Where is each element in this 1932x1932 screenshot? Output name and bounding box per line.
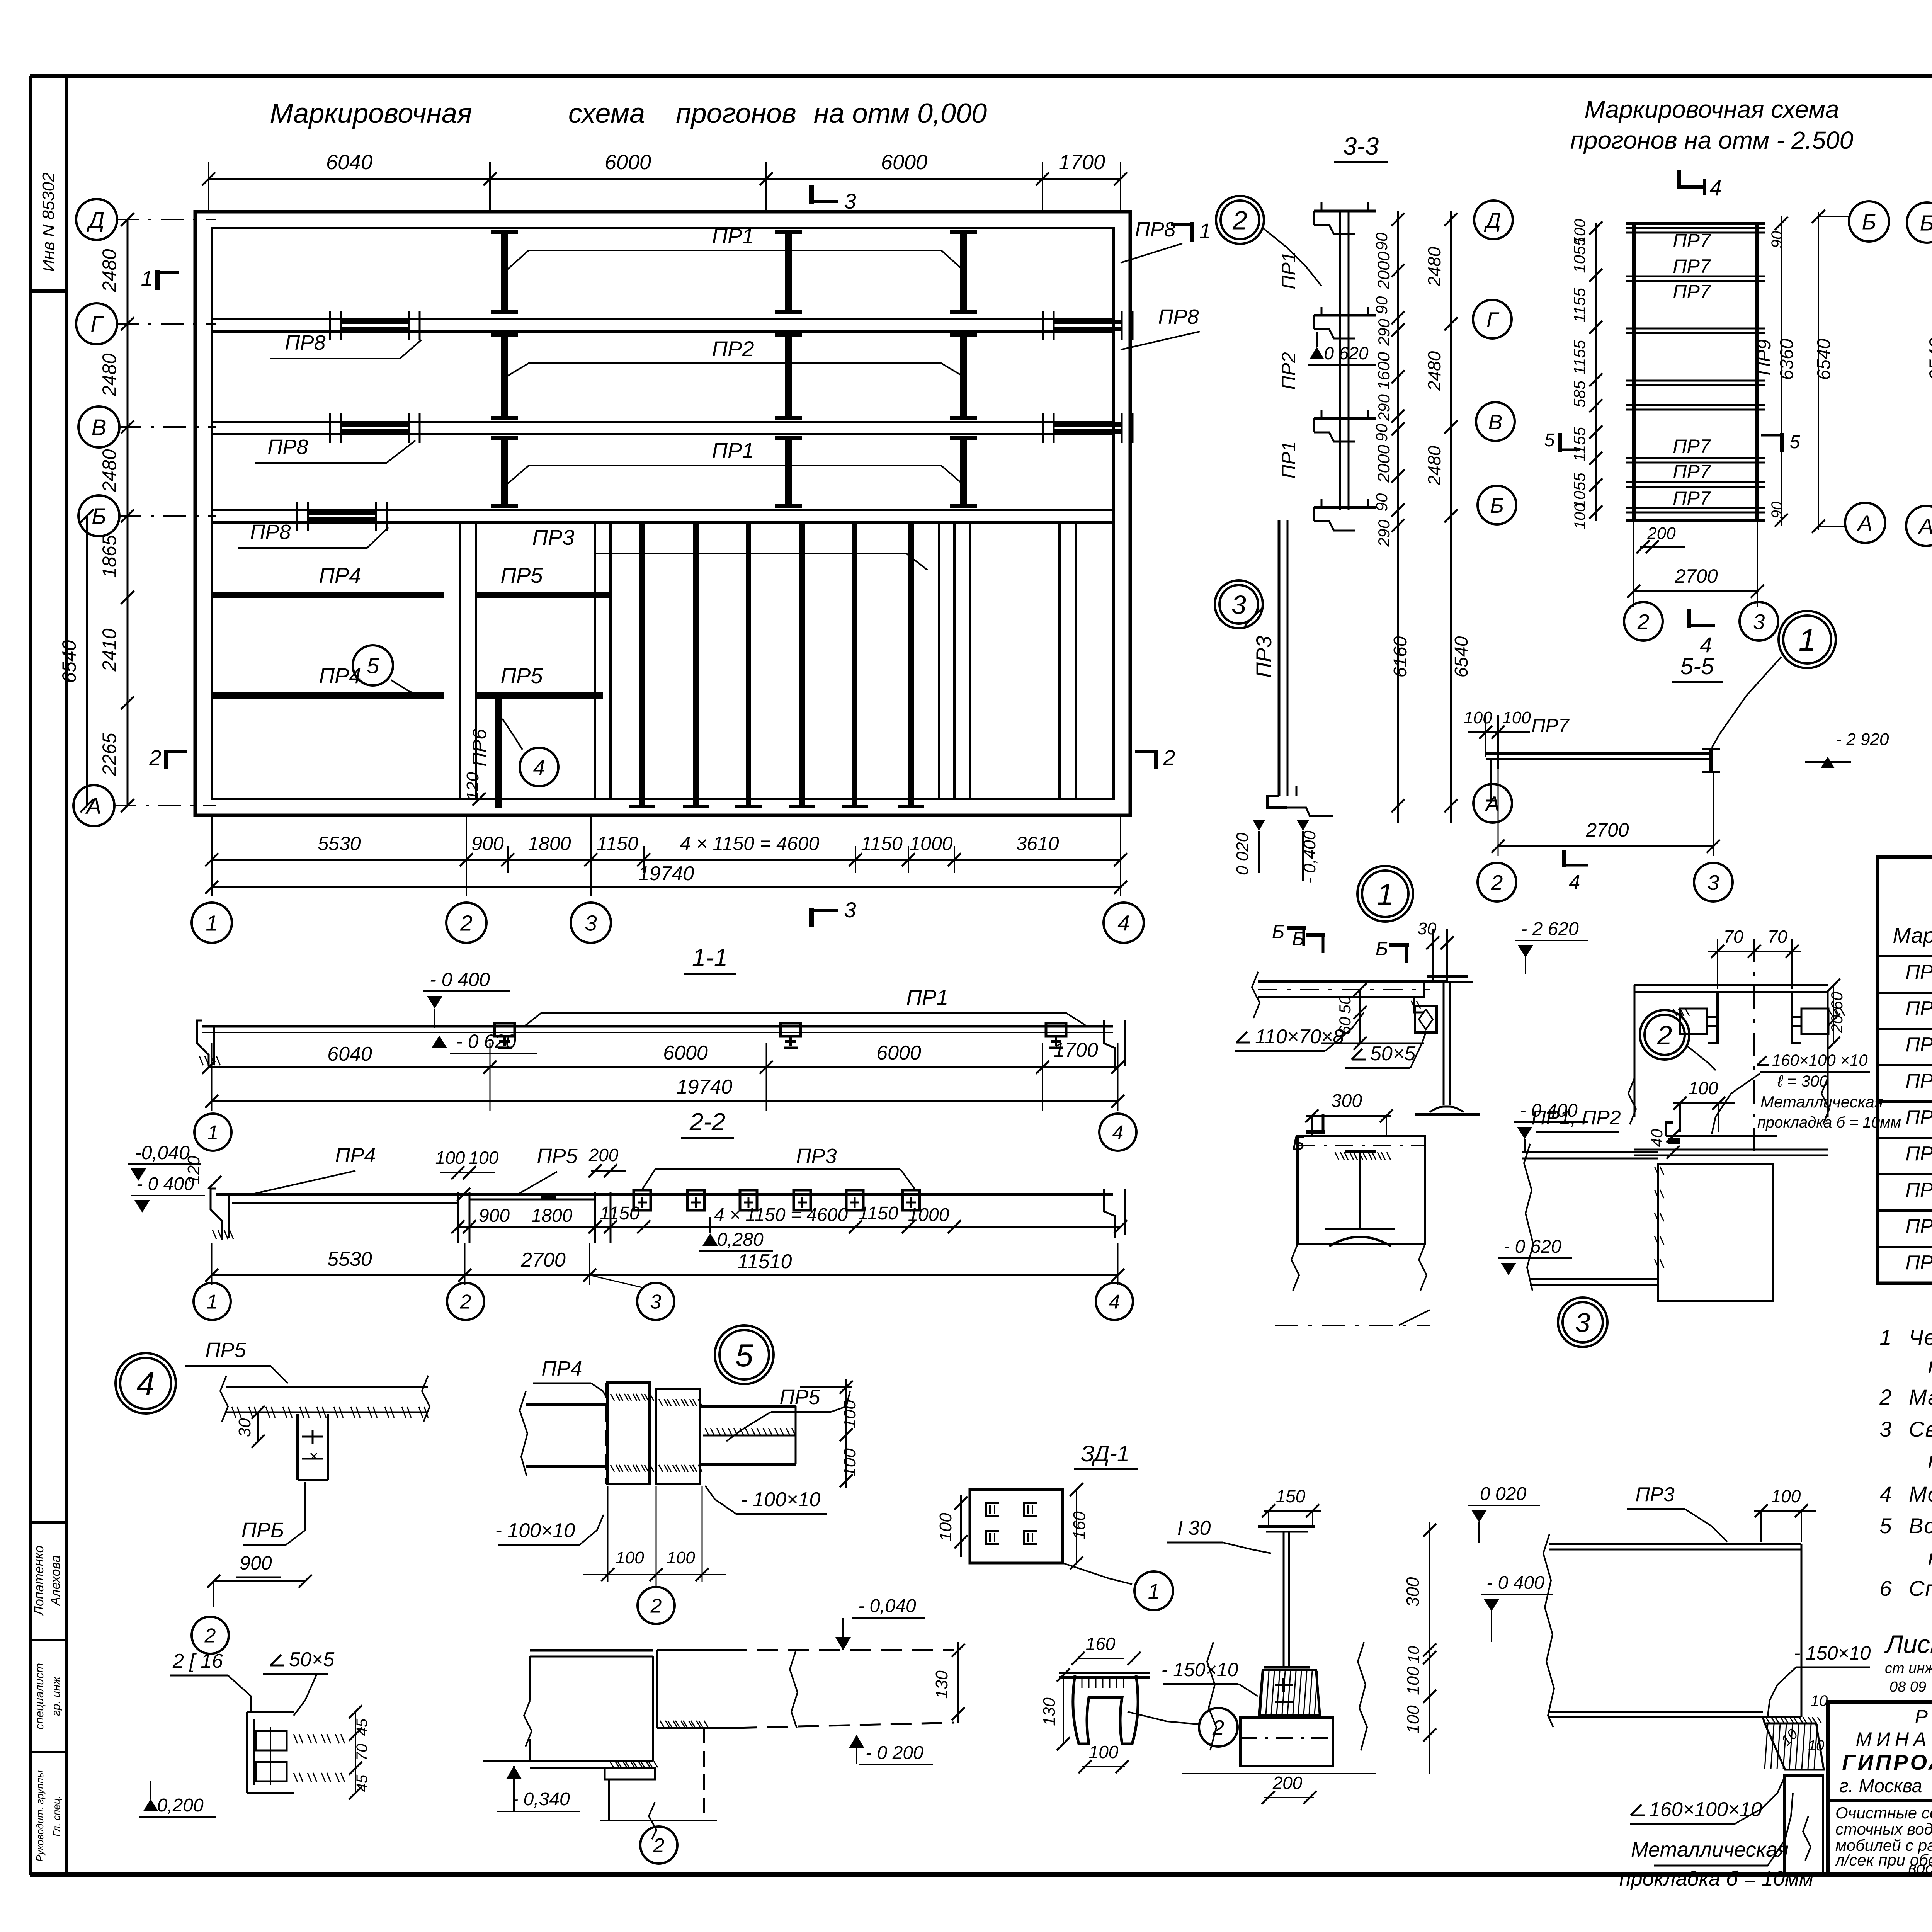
- svg-text:несговоренных швов пр: несговоренных швов принять 6 мм.: [1928, 1448, 1932, 1472]
- svg-text:120: 120: [463, 772, 482, 801]
- plan25 cut 5 marks: [1558, 433, 1562, 452]
- svg-text:ПР7: ПР7: [1531, 715, 1570, 736]
- svg-text:200: 200: [1272, 1773, 1303, 1793]
- svg-text:90: 90: [1769, 502, 1786, 519]
- svg-text:ПР1: ПР1: [712, 438, 754, 463]
- detail ZD-1 plate: [970, 1490, 1063, 1563]
- axis circle D: [76, 199, 117, 240]
- axis circle G: [76, 303, 117, 344]
- svg-text:ПР4: ПР4: [541, 1357, 582, 1380]
- svg-text:2: 2: [1657, 1020, 1672, 1050]
- svg-text:- 0,040: - 0,040: [858, 1596, 916, 1616]
- svg-text:Лист АС-6и выпущен взамен: Лист АС-6и выпущен взамен листа АС-6,: [1884, 1630, 1932, 1658]
- svg-text:900: 900: [240, 1552, 272, 1574]
- node2 I beam below: [1345, 1150, 1376, 1153]
- node1 label angle50: [1352, 1059, 1366, 1061]
- svg-text:6540: 6540: [1925, 338, 1932, 381]
- section 2-2 grid3 wall: [594, 1192, 596, 1243]
- section 5-5 beam: [1486, 752, 1713, 755]
- svg-text:160: 160: [1070, 1511, 1089, 1540]
- svg-text:Б: Б: [1292, 928, 1305, 949]
- section 5-5 cut mark 4: [1562, 850, 1566, 867]
- svg-text:ПР1: ПР1: [1905, 961, 1932, 983]
- svg-text:на отм 0,000: на отм 0,000: [814, 98, 987, 129]
- svg-text:Очистные сооружения для: Очистные сооружения для: [1835, 1804, 1932, 1822]
- svg-text:0 020: 0 020: [1233, 832, 1252, 875]
- node1 cut B top 2: [1389, 943, 1409, 947]
- sectionBB side verticals: [1634, 985, 1636, 1117]
- svg-text:2480: 2480: [99, 353, 120, 396]
- svg-text:2 [ 16: 2 [ 16: [172, 1650, 223, 1672]
- svg-text:90: 90: [1372, 423, 1391, 442]
- svg-text:1: 1: [1148, 1579, 1160, 1603]
- section 4-4 axis circle A: [1906, 506, 1932, 546]
- section cut T1 right: [1190, 222, 1194, 241]
- svg-text:×: ×: [309, 1448, 318, 1465]
- svg-text:100: 100: [1089, 1742, 1119, 1762]
- section 2-2 circle 4: [1096, 1283, 1133, 1320]
- svg-text:585: 585: [1570, 380, 1588, 408]
- svg-text:ПР7: ПР7: [1673, 461, 1711, 483]
- node2 circle 3: [1558, 1298, 1607, 1347]
- svg-text:ПР8: ПР8: [1905, 1215, 1932, 1238]
- section 2-2 dim row 2: [212, 1274, 1118, 1276]
- section 3-3 bottom support: [1267, 796, 1287, 808]
- splice PR8 axis V left: [341, 422, 409, 427]
- beam PR6 vertical: [495, 696, 502, 808]
- svg-text:70: 70: [1767, 927, 1787, 947]
- node1 beam: [1258, 980, 1447, 983]
- svg-text:ПР8: ПР8: [1158, 305, 1199, 328]
- svg-text:45: 45: [354, 1718, 371, 1736]
- svg-text:- 0 200: - 0 200: [866, 1743, 923, 1763]
- svg-text:11510: 11510: [738, 1250, 792, 1273]
- svg-text:ПР5: ПР5: [205, 1338, 246, 1362]
- svg-text:коррозийным составом: коррозийным составом: [1928, 1545, 1932, 1570]
- svg-text:ПР3: ПР3: [796, 1145, 837, 1168]
- svg-text:08 09 77: 08 09 77: [1889, 1679, 1932, 1695]
- svg-text:ПР7: ПР7: [1673, 435, 1711, 457]
- detail angle 50x5 label: [270, 1665, 284, 1667]
- svg-text:ПР5: ПР5: [500, 663, 543, 688]
- plan25 circle 2: [1624, 602, 1663, 641]
- svg-text:- 100×10: - 100×10: [741, 1488, 821, 1511]
- svg-text:Гл. спец.: Гл. спец.: [51, 1796, 62, 1837]
- section cut 2T left: [164, 750, 168, 769]
- section 1-1 circle 1: [194, 1114, 231, 1151]
- vignette F circle 2: [640, 1827, 677, 1864]
- node3 label angle160: [1631, 1815, 1645, 1816]
- svg-text:3-3: 3-3: [1343, 132, 1379, 160]
- elements table grid: [1878, 857, 1932, 1283]
- svg-text:Б: Б: [1490, 493, 1504, 517]
- svg-text:5530: 5530: [327, 1248, 372, 1270]
- node3 pedestal I beam: [1258, 1525, 1315, 1528]
- detail 5 right dim 100 100: [845, 1379, 847, 1488]
- svg-text:Б: Б: [1376, 938, 1388, 959]
- svg-text:3: 3: [1575, 1308, 1590, 1338]
- node2 angle: [1666, 1135, 1777, 1137]
- vignette F right beam: [657, 1649, 726, 1651]
- axis circle A: [73, 785, 114, 826]
- svg-text:3: 3: [1753, 610, 1765, 634]
- svg-text:Монтаж производить на черн: Монтаж производить на черных болтах М12.: [1909, 1482, 1932, 1506]
- svg-text:схема: схема: [568, 98, 645, 129]
- svg-text:ПР9: ПР9: [1754, 339, 1775, 376]
- stamp divider: [30, 289, 66, 293]
- section 2-2 right support: [1104, 1189, 1115, 1238]
- section 2-2 circle 2: [447, 1283, 484, 1320]
- svg-text:6540: 6540: [58, 640, 80, 683]
- axis line B: [118, 515, 216, 517]
- svg-text:ПР1: ПР1: [1278, 441, 1299, 478]
- svg-text:ПР4: ПР4: [335, 1144, 376, 1167]
- svg-text:Чертежи металлических кон: Чертежи металлических конструкций разраб…: [1909, 1325, 1932, 1349]
- svg-text:- 150×10: - 150×10: [1794, 1642, 1871, 1664]
- node2 circle: [1640, 1010, 1689, 1060]
- svg-text:2: 2: [650, 1595, 662, 1617]
- svg-text:сточных вод от мойки авто-: сточных вод от мойки авто-: [1835, 1820, 1932, 1838]
- svg-text:50: 50: [1336, 995, 1354, 1014]
- svg-text:ПР5: ПР5: [1905, 1106, 1932, 1129]
- svg-text:10: 10: [1405, 1646, 1422, 1663]
- svg-text:150: 150: [1276, 1486, 1306, 1506]
- detail 5 circle 2: [638, 1587, 675, 1624]
- svg-text:ПР1: ПР1: [906, 985, 948, 1009]
- plan25 dim chain right 6540: [1818, 212, 1819, 530]
- vignette F pier: [608, 1779, 610, 1820]
- svg-text:30: 30: [235, 1418, 254, 1437]
- svg-text:1600: 1600: [1374, 352, 1393, 390]
- svg-text:2000: 2000: [1374, 445, 1393, 483]
- svg-text:1150: 1150: [597, 833, 638, 854]
- svg-text:Марка: Марка: [1893, 923, 1932, 947]
- svg-text:А: А: [1857, 511, 1872, 536]
- svg-text:МИНАВТОТРАНС: МИНАВТОТРАНС: [1856, 1728, 1932, 1750]
- section 1-1 right support: [1104, 1020, 1115, 1070]
- beam PR1 leader row D-G: [506, 250, 964, 270]
- axis circle V: [78, 406, 119, 447]
- node2 beam: [1522, 1151, 1658, 1153]
- node3 right wall: [1784, 1776, 1823, 1875]
- svg-text:1055: 1055: [1570, 237, 1588, 273]
- svg-text:10: 10: [1811, 1692, 1828, 1709]
- plan top extension lines: [208, 162, 209, 211]
- left vertical dim line: [127, 219, 129, 806]
- svg-text:ПР1: ПР1: [1278, 252, 1299, 289]
- svg-text:2-2: 2-2: [689, 1108, 726, 1136]
- svg-text:2: 2: [1491, 871, 1503, 895]
- section 3-3 circle 2: [1216, 196, 1264, 244]
- node2 labels right: [1757, 1064, 1769, 1066]
- section 3-3 dim chain outer: [1450, 211, 1452, 823]
- svg-text:- 0,340: - 0,340: [512, 1789, 570, 1810]
- svg-text:160: 160: [1086, 1634, 1116, 1654]
- detail ZD-1 circle 1: [1134, 1571, 1173, 1610]
- svg-text:прогонов на отм - 2.500: прогонов на отм - 2.500: [1570, 126, 1854, 154]
- svg-text:6000: 6000: [881, 151, 927, 174]
- svg-text:2480: 2480: [1424, 247, 1444, 287]
- svg-text:6040: 6040: [327, 1043, 372, 1065]
- node2 pad rect: [1298, 1136, 1425, 1244]
- grid circle 2: [446, 903, 486, 943]
- section cut T2 right: [1154, 750, 1158, 769]
- svg-text:4 × 1150 = 4600: 4 × 1150 = 4600: [680, 833, 820, 854]
- svg-text:Б: Б: [1862, 210, 1876, 235]
- svg-text:ПРБ: ПРБ: [241, 1519, 284, 1542]
- svg-text:100: 100: [667, 1548, 695, 1567]
- svg-text:70: 70: [1723, 927, 1743, 947]
- svg-text:2: 2: [149, 745, 161, 770]
- section 1-1 left support: [197, 1020, 209, 1066]
- section 5-5 circle 3: [1694, 863, 1733, 901]
- svg-text:ПР7: ПР7: [1905, 1179, 1932, 1201]
- section 3-3 B cut top: [1287, 926, 1306, 930]
- svg-text:6360: 6360: [1777, 338, 1797, 380]
- svg-text:2480: 2480: [1424, 351, 1444, 391]
- svg-text:200: 200: [588, 1145, 619, 1165]
- svg-text:3: 3: [844, 189, 856, 213]
- plan outer wall: [195, 212, 1130, 815]
- svg-text:ПР8: ПР8: [267, 435, 308, 459]
- svg-text:2700: 2700: [520, 1249, 566, 1271]
- svg-text:6000: 6000: [663, 1042, 708, 1064]
- svg-text:ПР2: ПР2: [1905, 997, 1932, 1020]
- svg-text:Алехова: Алехова: [48, 1555, 63, 1607]
- svg-text:90: 90: [1372, 493, 1391, 511]
- svg-text:100: 100: [840, 1448, 859, 1477]
- section 3-3 supports: [1314, 210, 1376, 213]
- svg-text:90: 90: [1372, 232, 1391, 250]
- svg-text:1: 1: [1377, 877, 1394, 911]
- node3 big beam: [1549, 1543, 1801, 1545]
- svg-text:3: 3: [844, 898, 856, 922]
- svg-text:ПР3: ПР3: [1252, 636, 1276, 678]
- svg-text:2700: 2700: [1674, 565, 1718, 587]
- svg-text:1155: 1155: [1570, 427, 1588, 462]
- detail 5 right beam: [700, 1405, 796, 1408]
- section 3-3 circle 1 node: [1357, 866, 1413, 922]
- svg-text:ПР7: ПР7: [1673, 230, 1711, 252]
- svg-text:100: 100: [1689, 1078, 1718, 1098]
- svg-text:40: 40: [1648, 1129, 1666, 1147]
- svg-text:130: 130: [932, 1670, 951, 1699]
- svg-text:гр. инж: гр. инж: [50, 1676, 63, 1716]
- svg-text:ПР6: ПР6: [469, 729, 490, 767]
- node3 wavy sides: [1207, 1642, 1216, 1750]
- svg-text:2: 2: [460, 1291, 471, 1313]
- svg-text:19740: 19740: [677, 1076, 733, 1098]
- svg-text:1: 1: [207, 1122, 219, 1144]
- title block outer: [1828, 1702, 1932, 1874]
- svg-text:А: А: [1918, 514, 1932, 539]
- svg-text:4: 4: [136, 1366, 155, 1403]
- svg-text:5: 5: [1544, 430, 1555, 451]
- vignette F left block: [530, 1649, 653, 1652]
- svg-text:Маркировочная: Маркировочная: [270, 98, 472, 129]
- stamp divider low 3: [30, 1751, 66, 1753]
- svg-text:3610: 3610: [1016, 833, 1059, 854]
- svg-text:ПР8: ПР8: [285, 331, 325, 354]
- sheet frame top: [30, 74, 1932, 78]
- svg-text:900: 900: [471, 833, 504, 854]
- node1 cut B top: [1306, 933, 1325, 937]
- svg-text:г. Москва: г. Москва: [1839, 1776, 1922, 1796]
- axis line D: [116, 219, 216, 220]
- wall axis B: [212, 509, 1114, 511]
- stamp divider low 2: [30, 1639, 66, 1641]
- svg-text:ст инж Кочетова: ст инж Кочетова: [1885, 1660, 1932, 1677]
- svg-text:6540: 6540: [1451, 636, 1472, 677]
- section 2-2 left support: [211, 1189, 222, 1240]
- section 1-1 dims: [209, 1066, 1118, 1068]
- detail 2C16 dims 45 70 45: [355, 1712, 356, 1793]
- axis line A: [113, 805, 216, 806]
- svg-text:- 0 620: - 0 620: [1313, 343, 1369, 363]
- stamp divider low 1: [30, 1521, 66, 1524]
- svg-text:РСФСР: РСФСР: [1915, 1706, 1932, 1728]
- svg-text:ПР4: ПР4: [319, 563, 361, 587]
- column I beams row G-V: [501, 335, 508, 418]
- detail 4 channel PR6: [296, 1414, 299, 1480]
- vignette F dim 130: [957, 1642, 959, 1723]
- node3 base: [1240, 1718, 1333, 1766]
- svg-text:4: 4: [1117, 911, 1130, 936]
- svg-text:2480: 2480: [99, 449, 120, 492]
- svg-text:4: 4: [1879, 1482, 1891, 1506]
- sectionBB clip right: [1792, 992, 1801, 1043]
- svg-text:водоснабжении: водоснабжении: [1908, 1859, 1932, 1877]
- section 3-3 beam PR3: [1278, 520, 1281, 796]
- node2 pad lower wavy: [1291, 1244, 1299, 1291]
- svg-text:200: 200: [1647, 524, 1676, 543]
- svg-text:4: 4: [1709, 175, 1721, 200]
- svg-text:ПР3: ПР3: [532, 525, 574, 549]
- plan25 axis circle B: [1849, 201, 1889, 241]
- svg-text:ГИПРОАВТОТРАНС: ГИПРОАВТОТРАНС: [1842, 1750, 1932, 1774]
- svg-text:ПР5: ПР5: [537, 1145, 578, 1168]
- svg-text:70: 70: [354, 1744, 371, 1761]
- svg-text:- 0 400: - 0 400: [1486, 1573, 1544, 1593]
- svg-text:ПР8: ПР8: [250, 520, 291, 544]
- node1 beam lower: [1321, 1043, 1424, 1044]
- svg-text:1: 1: [207, 1291, 218, 1313]
- section 5-5 circle 2: [1478, 863, 1516, 901]
- section 2-2 beam: [216, 1193, 1113, 1196]
- svg-text:19740: 19740: [638, 862, 694, 885]
- svg-text:5: 5: [735, 1337, 753, 1373]
- svg-text:100: 100: [1502, 708, 1531, 727]
- svg-text:110×70×8: 110×70×8: [1255, 1026, 1344, 1048]
- svg-text:1: 1: [1879, 1325, 1891, 1349]
- svg-text:- 0,280: - 0,280: [706, 1230, 764, 1250]
- sectionBB center line: [1753, 939, 1755, 1153]
- axis circle B: [78, 495, 119, 536]
- svg-text:1155: 1155: [1570, 287, 1588, 323]
- section 3-3 circle 3: [1215, 580, 1263, 628]
- svg-text:1700: 1700: [1053, 1039, 1098, 1061]
- section 1-1 beam: [202, 1025, 1113, 1028]
- svg-text:ПР6: ПР6: [1905, 1143, 1932, 1165]
- wall axis V: [212, 421, 1114, 423]
- svg-text:ПР2: ПР2: [712, 337, 754, 361]
- svg-text:1865: 1865: [99, 535, 120, 578]
- node1 cut B bottom: [1306, 1130, 1325, 1134]
- section cut 1T left: [155, 270, 160, 290]
- plan25 beams: [1626, 222, 1765, 225]
- svg-text:6: 6: [1879, 1576, 1892, 1600]
- plan bottom dim line 19740: [212, 886, 1121, 888]
- svg-text:2: 2: [204, 1625, 216, 1647]
- svg-text:Б: Б: [92, 504, 106, 529]
- svg-text:Г: Г: [90, 312, 104, 337]
- svg-text:ПР9: ПР9: [1905, 1252, 1932, 1274]
- detail 5 plate A: [607, 1383, 650, 1484]
- svg-text:- 2 920: - 2 920: [1836, 730, 1889, 749]
- svg-text:300: 300: [1403, 1577, 1423, 1607]
- beams PR5 middle room: [476, 592, 611, 598]
- svg-text:5: 5: [1879, 1514, 1892, 1538]
- svg-text:Д: Д: [1484, 208, 1501, 232]
- svg-text:ПР7: ПР7: [1673, 281, 1711, 303]
- svg-text:Спецификацию на деталь ЗД: Спецификацию на деталь ЗД-1 см лист АС-1…: [1909, 1576, 1932, 1600]
- svg-text:3: 3: [1708, 871, 1719, 895]
- section 3-3 dim chain inner: [1397, 211, 1399, 823]
- svg-text:6000: 6000: [605, 151, 651, 174]
- svg-text:Все металлические конст: Все металлические конструкции покрыть ан…: [1909, 1514, 1932, 1538]
- plan25 left wall: [1632, 223, 1636, 521]
- svg-text:1800: 1800: [531, 1206, 573, 1226]
- svg-text:4: 4: [1569, 871, 1580, 893]
- svg-text:6000: 6000: [876, 1042, 921, 1064]
- section 2-2 grid2 wall: [457, 1192, 459, 1243]
- svg-text:300: 300: [1331, 1091, 1362, 1111]
- detail 4 circle 2: [192, 1617, 229, 1654]
- svg-text:Б: Б: [1920, 211, 1932, 236]
- column I beams row V-B: [501, 438, 508, 506]
- svg-text:2265: 2265: [99, 733, 120, 776]
- svg-text:3: 3: [1879, 1417, 1891, 1441]
- sheet frame bottom: [30, 1872, 1932, 1877]
- svg-text:ЗД-1: ЗД-1: [1081, 1441, 1129, 1466]
- grid circle 3: [571, 903, 611, 943]
- svg-text:5: 5: [367, 654, 379, 679]
- svg-text:Металлическая: Металлическая: [1760, 1093, 1883, 1111]
- svg-text:130: 130: [1040, 1697, 1059, 1726]
- svg-text:100: 100: [936, 1513, 955, 1541]
- svg-text:Сварку производить элект: Сварку производить электродами Э 42 Высо…: [1909, 1417, 1932, 1441]
- svg-text:100: 100: [1404, 1705, 1423, 1734]
- detail 5 left beam: [526, 1403, 607, 1406]
- svg-text:на стадии КМ: на стадии КМ: [1928, 1353, 1932, 1378]
- svg-text:2410: 2410: [99, 628, 120, 672]
- svg-text:прогонов: прогонов: [676, 98, 796, 129]
- node3 right dim chain: [1429, 1522, 1430, 1774]
- node1 bolt plate: [1415, 1006, 1437, 1032]
- detail 5 plate B: [656, 1389, 700, 1484]
- section 2-2 dim row: [458, 1226, 1121, 1228]
- plan detail circle 5: [353, 645, 393, 685]
- detail 2C16 section: [246, 1712, 248, 1793]
- section 3-3 column D-B: [1339, 211, 1341, 510]
- svg-text:ПР3: ПР3: [1905, 1034, 1932, 1056]
- svg-text:4 × 1150 = 4600: 4 × 1150 = 4600: [714, 1205, 848, 1225]
- svg-text:- 0 620: - 0 620: [456, 1031, 516, 1052]
- svg-text:5: 5: [1790, 432, 1800, 452]
- sheet border outer left line: [29, 76, 32, 1875]
- svg-text:Г: Г: [1486, 308, 1500, 332]
- svg-text:1800: 1800: [528, 833, 571, 854]
